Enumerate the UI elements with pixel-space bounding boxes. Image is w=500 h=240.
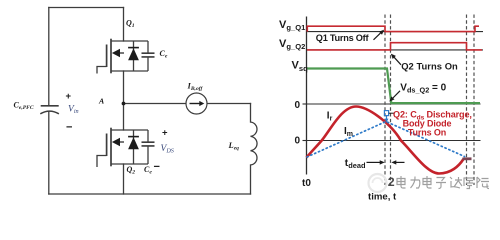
body diode D2 cathode bar: [128, 136, 139, 138]
svg-text:−: −: [66, 122, 72, 134]
wire right branch upper: [250, 104, 252, 123]
Q2 body arrow shaft: [119, 141, 125, 143]
Vsq zero axis (0 line): [307, 103, 481, 105]
wire Q1 source to node A: [123, 71, 125, 104]
Q2 channel bar: [110, 128, 112, 167]
Q1 gate bar: [106, 45, 108, 68]
svg-text:time, t: time, t: [368, 191, 397, 202]
arrow t_dead right: [367, 161, 381, 163]
tick at 0 (Vsq): [303, 103, 307, 105]
Vg_Q1 gate trace: [307, 26, 479, 31]
svg-text:0: 0: [295, 100, 301, 111]
char 达: [450, 177, 462, 188]
capacitor Ce (Q2) leads: [147, 130, 149, 164]
marker square (blue): [384, 111, 388, 116]
svg-text:−: −: [154, 161, 160, 173]
capacitor Ce (Q1) leads: [147, 41, 149, 71]
current source arrow shaft: [190, 103, 201, 105]
svg-text:Q2 Turns On: Q2 Turns On: [401, 61, 458, 72]
char 院: [477, 177, 489, 189]
Q2 gate lead: [97, 156, 107, 168]
watermark logo circle: [369, 174, 387, 192]
svg-text:t0: t0: [302, 178, 311, 189]
char 子: [436, 178, 446, 189]
capacitor Ce (Q1) plates: [142, 53, 155, 57]
arrow Q1 Turns Off: [374, 33, 382, 40]
Ir clamped dark segment: [463, 157, 472, 160]
svg-text:+: +: [66, 91, 72, 102]
wire Q2 drain from node A: [123, 104, 125, 131]
dashed line t1 (Q1 off): [384, 15, 386, 186]
wire left upper (Vin bus to Ce,PFC): [48, 8, 50, 106]
watermark chinese text 电力电子达摩院: [397, 176, 489, 189]
current source IB,off circle: [186, 93, 207, 114]
transistor Q1 mosfet body: [97, 39, 148, 74]
wire bottom rail: [49, 193, 251, 195]
dashed line t4 (Q1 on again): [473, 15, 475, 186]
wire top rail: [49, 7, 124, 9]
Q1 top rail of cell: [111, 40, 148, 42]
Q1 channel bar: [110, 39, 112, 74]
wire Q2 source to bottom rail: [123, 164, 125, 194]
arrow t_dead left: [395, 161, 405, 163]
capacitor Ce,PFC plates: [40, 106, 59, 114]
Q2 bottom rail of cell: [111, 163, 148, 165]
Vg_Q1 zero axis: [307, 31, 484, 33]
Q1 body arrow head: [112, 49, 120, 57]
dashed line t3 (Q2 off): [466, 15, 468, 186]
dashed line t2 (Q2 on): [390, 15, 392, 186]
wire right branch lower: [250, 165, 252, 194]
marker connector line: [389, 112, 395, 114]
char 电: [423, 176, 432, 188]
char 电: [397, 176, 406, 188]
Q2 top rail of cell: [111, 129, 148, 131]
Vg_Q2 zero axis: [307, 49, 484, 51]
Im magnetizing current (blue dotted): [307, 122, 465, 158]
waveform y-axis: [306, 17, 308, 175]
node A junction dot: [122, 102, 126, 106]
time axis (current 0 line): [307, 140, 481, 142]
body diode D1 branch wire: [133, 41, 135, 71]
wire node A to current source: [124, 103, 187, 105]
wire Q1 drain: [123, 8, 125, 42]
current source arrow head: [199, 101, 204, 106]
svg-text:2: 2: [388, 175, 395, 189]
char 摩: [464, 178, 474, 189]
wire left lower (Ce,PFC to bottom rail): [48, 112, 50, 195]
char 力: [411, 177, 420, 189]
arrow Q2 Turns On: [394, 57, 401, 65]
inductor Leq coil: [251, 122, 258, 165]
Q2 gate bar: [106, 134, 108, 157]
Q2 body arrow head: [112, 138, 120, 146]
arrow Vds_Q2 = 0: [393, 91, 400, 98]
svg-text:Turns On: Turns On: [408, 128, 446, 138]
body diode D2 triangle: [128, 137, 139, 149]
body diode D1 triangle: [128, 48, 139, 60]
svg-text:0: 0: [295, 136, 301, 147]
Ir resonant current sine (red): [307, 107, 464, 174]
Q1 body arrow shaft: [119, 52, 125, 54]
svg-text:+: +: [162, 128, 168, 139]
Q1 gate lead: [97, 67, 107, 74]
transistor Q2 mosfet body: [97, 128, 148, 167]
body diode D1 cathode bar: [128, 47, 139, 49]
marker arrow (blue): [386, 116, 388, 119]
tick at 0 (current): [303, 140, 307, 142]
Vsq trace (green): [307, 69, 480, 104]
svg-text:Q1 Turns Off: Q1 Turns Off: [316, 33, 370, 43]
capacitor Ce (Q2) plates: [142, 142, 155, 146]
Q1 bottom rail of cell: [111, 70, 148, 72]
wire current source to right branch: [207, 103, 251, 105]
Vg_Q2 gate trace: [307, 43, 482, 50]
body diode D2 branch wire: [133, 130, 135, 164]
svg-text:A: A: [98, 97, 104, 106]
